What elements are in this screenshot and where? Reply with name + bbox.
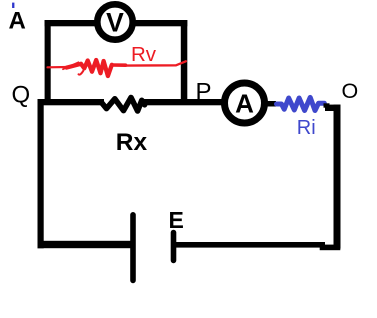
resistor Rv (red, hand drawn): [48, 60, 186, 76]
svg-text:Rv: Rv: [131, 43, 157, 66]
ammeter U-A: [225, 83, 265, 123]
wire: bottom left: [38, 241, 133, 248]
wire: bottom right: [176, 242, 325, 248]
wire: bottom right overlap step: [320, 245, 341, 251]
wire: corner at O: [325, 105, 341, 111]
svg-text:A: A: [9, 8, 26, 35]
resistor Ri (blue): [277, 97, 325, 110]
svg-text:P: P: [196, 78, 212, 105]
svg-text:V: V: [106, 8, 124, 38]
node A' label: [9, 3, 26, 35]
svg-text:Q: Q: [12, 81, 31, 108]
wire: voltmeter loop right vertical: [181, 20, 188, 103]
wire: stub ammeter to Ri: [265, 101, 276, 107]
wire: voltmeter loop top-right segment: [133, 20, 187, 26]
voltmeter U-V: [97, 4, 132, 39]
wire: left vertical: [38, 99, 44, 248]
svg-text:Rx: Rx: [116, 129, 148, 156]
svg-text:Ri: Ri: [297, 117, 316, 139]
svg-text:E: E: [169, 207, 184, 233]
svg-text:A: A: [235, 88, 254, 118]
battery E: long plate: [130, 215, 136, 281]
resistor Rx: [102, 98, 145, 112]
wire: main horizontal Rx to ammeter: [141, 99, 226, 105]
battery E: short plate: [171, 233, 177, 261]
wire: voltmeter loop left vertical: [45, 20, 51, 103]
wire: right vertical: [334, 105, 341, 249]
wire: voltmeter loop top-left segment: [45, 20, 97, 26]
svg-text:O: O: [342, 79, 359, 103]
wire: stub Ri to corner: [324, 103, 330, 107]
wire: main horizontal Q to Rx: [38, 99, 105, 105]
